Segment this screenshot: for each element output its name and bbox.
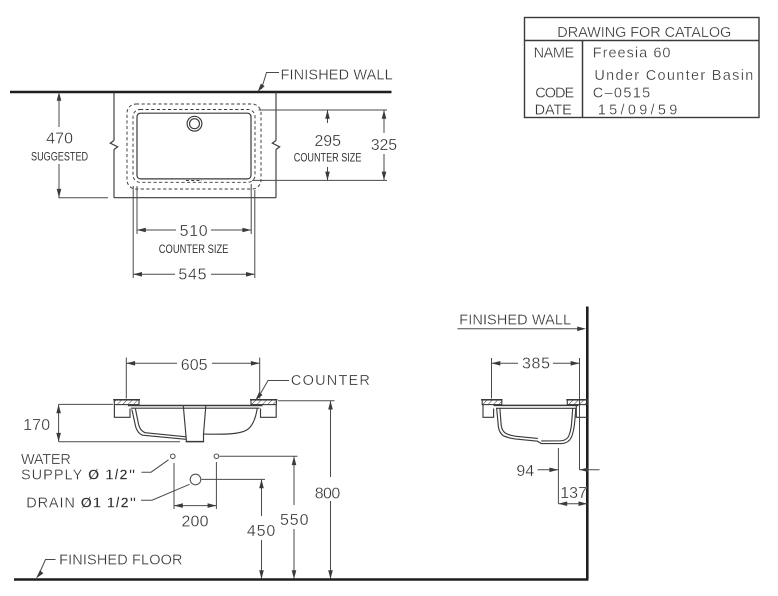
svg-text:800: 800 (315, 486, 341, 503)
svg-text:FINISHED WALL: FINISHED WALL (281, 67, 393, 83)
svg-text:COUNTER: COUNTER (291, 373, 370, 389)
svg-text:FINISHED FLOOR: FINISHED FLOOR (59, 552, 182, 568)
svg-text:295: 295 (315, 133, 342, 150)
svg-text:WATER: WATER (21, 452, 71, 468)
svg-text:SUPPLY Ø 1/2": SUPPLY Ø 1/2" (21, 468, 136, 484)
svg-text:200: 200 (182, 514, 209, 531)
svg-text:FINISHED WALL: FINISHED WALL (459, 312, 571, 328)
svg-text:Under Counter Basin: Under Counter Basin (594, 68, 753, 84)
svg-text:470: 470 (46, 131, 73, 148)
svg-text:DRAIN Ø1 1/2": DRAIN Ø1 1/2" (26, 496, 136, 512)
svg-text:C–0515: C–0515 (593, 85, 651, 101)
svg-text:170: 170 (23, 417, 50, 434)
svg-text:COUNTER SIZE: COUNTER SIZE (294, 152, 362, 164)
svg-text:325: 325 (371, 137, 398, 154)
svg-text:DATE: DATE (535, 102, 573, 118)
svg-text:SUGGESTED: SUGGESTED (31, 151, 88, 163)
svg-text:Freesia 60: Freesia 60 (593, 45, 671, 61)
svg-text:DRAWING FOR CATALOG: DRAWING FOR CATALOG (557, 25, 731, 41)
svg-text:450: 450 (247, 523, 275, 540)
svg-text:COUNTER SIZE: COUNTER SIZE (159, 244, 229, 256)
svg-text:545: 545 (178, 267, 206, 284)
svg-text:CODE: CODE (535, 85, 574, 101)
svg-text:605: 605 (181, 357, 208, 374)
svg-text:510: 510 (180, 223, 208, 240)
svg-text:NAME: NAME (534, 45, 575, 61)
svg-text:94: 94 (516, 463, 534, 480)
svg-text:550: 550 (280, 512, 309, 529)
svg-text:137: 137 (560, 485, 587, 502)
svg-text:385: 385 (522, 355, 550, 372)
